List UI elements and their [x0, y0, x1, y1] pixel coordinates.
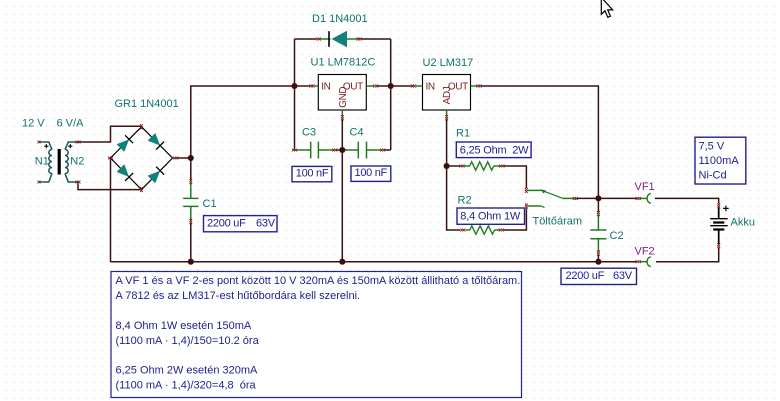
polarity plus N1 — [44, 144, 48, 148]
wire C2 bottom stub — [597, 255, 599, 262]
svg-text:100 nF: 100 nF — [355, 167, 388, 179]
switch SW1 arm head — [541, 189, 546, 193]
svg-text:N1: N1 — [35, 155, 49, 167]
svg-text:IN: IN — [321, 81, 330, 92]
svg-text:ADJ: ADJ — [442, 86, 453, 104]
svg-text:U1 LM7812C: U1 LM7812C — [311, 57, 376, 69]
wire switch pole to node — [577, 197, 599, 199]
op U2 LM317 box — [423, 75, 471, 111]
info box battery specs — [695, 137, 746, 184]
pin marker R1 left — [459, 165, 464, 168]
wire bridge right vertex to node — [178, 157, 191, 159]
diode D1 cathode bar — [328, 31, 330, 47]
pin marker N2 top — [76, 141, 81, 144]
svg-text:C4: C4 — [350, 127, 364, 139]
svg-text:63V: 63V — [256, 217, 276, 229]
wire left loop vertical (D1/C3) — [294, 39, 296, 150]
pin marker VF2 left — [636, 260, 641, 263]
U2 pin leads — [416, 86, 477, 116]
svg-text:100 nF: 100 nF — [296, 167, 329, 179]
bridge rectifier GR1 diamond — [111, 127, 173, 190]
svg-text:Ni-Cd: Ni-Cd — [699, 170, 727, 182]
svg-text:U2 LM317: U2 LM317 — [423, 57, 474, 69]
transformer TR1 winding N2 — [65, 142, 78, 150]
pin marker switch bottom throw — [525, 204, 528, 209]
wire bridge left vertex down to ground rail — [110, 158, 112, 262]
wire C1 bottom stub — [190, 223, 192, 262]
pin marker U1 in — [309, 85, 314, 88]
connector VF2 arc — [647, 257, 651, 267]
svg-text:VF1: VF1 — [635, 181, 655, 193]
bridge diode top-left — [117, 139, 130, 152]
pin marker U2 adj — [445, 115, 448, 120]
pin marker C3 left — [292, 149, 297, 152]
pin marker C2 top — [597, 211, 600, 216]
svg-text:IN: IN — [426, 81, 435, 92]
wire right loop vertical (D1/C4) — [390, 39, 392, 150]
value box C3 100nF — [292, 166, 332, 181]
pin marker C4 right — [380, 149, 385, 152]
pin marker R2 right — [499, 229, 504, 232]
wire C1 top stub — [190, 158, 192, 180]
battery B1 leads — [718, 208, 720, 245]
switch SW1 pole lead — [563, 197, 574, 199]
junction node rail C1 — [188, 259, 194, 265]
svg-text:Töltőáram: Töltőáram — [533, 215, 583, 227]
pin marker N2 bottom — [76, 181, 81, 184]
pin marker U2 out — [476, 85, 481, 88]
wire U2 out to right corner down — [481, 86, 598, 198]
pin marker switch pole — [573, 197, 578, 200]
svg-text:Akku: Akku — [731, 217, 755, 229]
pin marker C1 bottom — [189, 219, 192, 224]
pin marker U1 gnd — [341, 115, 344, 120]
mouse cursor — [601, 0, 612, 17]
diode D1 leads — [321, 38, 358, 40]
pin marker bridge top — [140, 124, 143, 129]
connector VF1 arc — [647, 194, 651, 204]
wire U1 out to U2 in — [378, 85, 412, 87]
value box R2 — [457, 208, 525, 224]
svg-text:VF2: VF2 — [635, 246, 655, 258]
svg-text:2200 uF: 2200 uF — [207, 217, 246, 229]
svg-text:63V: 63V — [613, 270, 633, 282]
switch SW1 bottom contact tick — [541, 206, 545, 208]
connector VF1 lead — [640, 197, 647, 199]
svg-text:6,25 Ohm 2W: 6,25 Ohm 2W — [460, 145, 529, 157]
junction node gnd C3C4 — [339, 147, 345, 153]
pin marker C1 top — [189, 179, 192, 184]
resistor R2 — [466, 229, 470, 231]
pin marker bridge bottom — [140, 187, 143, 192]
junction node switch pole — [595, 195, 601, 201]
wire C4 right corner up — [385, 149, 391, 151]
transformer TR1 winding N1 — [39, 142, 52, 150]
wire R1 left stub — [447, 165, 460, 167]
wire N2 bottom to bridge bottom vertex — [78, 182, 142, 190]
svg-text:C3: C3 — [302, 127, 316, 139]
svg-text:6 V/A: 6 V/A — [57, 118, 85, 130]
pin marker bridge left — [108, 157, 113, 160]
battery plus sign — [723, 206, 729, 212]
wire C2 top stub — [597, 198, 599, 211]
svg-text:2200 uF: 2200 uF — [566, 270, 605, 282]
pin marker D1 cathode — [356, 38, 361, 41]
svg-text:6,25 Ohm 2W esetén 320mA: 6,25 Ohm 2W esetén 320mA — [116, 365, 259, 377]
wire node to VF1 — [598, 197, 636, 199]
bridge diode bottom-right — [148, 171, 161, 184]
wire U2 adj down — [447, 120, 460, 231]
value box C1 2200uF — [204, 216, 278, 232]
junction node main-IN — [291, 83, 297, 89]
diode D1 triangle — [332, 31, 348, 47]
junction node main-OUT — [388, 83, 394, 89]
wire D1 top left — [295, 38, 317, 40]
note text block — [111, 272, 522, 398]
pin marker C3 right — [332, 149, 337, 152]
bridge diode top-right — [148, 133, 161, 146]
capacitor C4 — [342, 142, 381, 159]
pin marker U2 in — [411, 85, 416, 88]
wire R1 right to switch top — [504, 166, 527, 188]
svg-text:C2: C2 — [610, 230, 624, 242]
svg-text:R1: R1 — [456, 128, 470, 140]
junction node rail gnd — [339, 259, 345, 265]
wire R2 right to switch bottom — [503, 208, 526, 230]
junction node bridge output — [188, 155, 194, 161]
polarity plus N2 — [68, 144, 72, 148]
bridge right vertex green stub — [173, 157, 175, 159]
battery B1 plates — [710, 219, 728, 226]
junction node adj R1 — [444, 163, 450, 169]
transformer core — [58, 149, 61, 175]
svg-text:C1: C1 — [203, 198, 217, 210]
resistor R1 — [464, 165, 470, 167]
U1 pin leads — [315, 86, 374, 116]
switch SW1 arm — [542, 191, 563, 199]
capacitor C2 — [591, 216, 607, 253]
svg-text:GR1 1N4001: GR1 1N4001 — [115, 98, 179, 110]
pin marker D1 anode — [316, 38, 321, 41]
svg-text:12 V: 12 V — [22, 118, 45, 130]
pin marker R2 left — [460, 229, 465, 232]
switch SW1 bottom contact lead — [528, 205, 541, 207]
pin marker switch top throw — [525, 188, 528, 193]
svg-text:A 7812 és az LM317-est hűtőbor: A 7812 és az LM317-est hűtőbordára kell … — [116, 290, 361, 302]
junction node rail C2 — [595, 259, 601, 265]
svg-text:1100mA: 1100mA — [699, 155, 740, 167]
wire VF1 to battery top — [655, 198, 719, 203]
pin marker battery bottom — [717, 243, 720, 248]
wire U1 gnd down to rail — [341, 120, 343, 262]
pin marker U1 out — [373, 85, 378, 88]
wire battery bottom to VF2 right — [656, 248, 719, 262]
bridge diode bottom-left — [117, 164, 130, 177]
svg-text:8,4 Ohm 1W esetén 150mA: 8,4 Ohm 1W esetén 150mA — [116, 320, 252, 332]
capacitor C3 — [297, 142, 333, 159]
pin marker C2 bottom — [597, 251, 600, 256]
pin marker battery top — [717, 203, 720, 208]
wire riser node to main rail — [191, 86, 310, 158]
value box C4 100nF — [351, 166, 391, 181]
connector VF2 lead — [640, 261, 647, 263]
svg-text:N2: N2 — [70, 155, 84, 167]
pin marker N1 bottom — [37, 181, 40, 184]
switch SW1 top contact lead — [528, 189, 542, 191]
pin marker R1 right — [499, 165, 504, 168]
svg-text:(1100 mA · 1,4)/320=4,8 óra: (1100 mA · 1,4)/320=4,8 óra — [116, 379, 257, 391]
pin marker VF1 left — [636, 197, 641, 200]
wire D1 top right — [361, 38, 391, 40]
svg-text:A VF 1 és a VF 2-es pont közöt: A VF 1 és a VF 2-es pont között 10 V 320… — [116, 275, 521, 287]
pin marker N1 top — [37, 141, 40, 144]
value box R1 — [456, 142, 531, 158]
svg-text:8,4 Ohm 1W: 8,4 Ohm 1W — [460, 211, 521, 223]
svg-text:7,5 V: 7,5 V — [699, 140, 725, 152]
svg-text:GND: GND — [338, 87, 349, 108]
svg-text:R2: R2 — [458, 195, 472, 207]
value box C2 2200uF — [561, 268, 637, 284]
capacitor C1 — [183, 184, 198, 222]
svg-text:(1100 mA · 1,4)/150=10.2 óra: (1100 mA · 1,4)/150=10.2 óra — [116, 335, 260, 347]
wire C3 right stub — [337, 149, 343, 151]
pin marker bridge right — [173, 157, 178, 160]
ground rail bottom — [111, 261, 638, 263]
op U1 LM7812C box — [318, 75, 366, 111]
svg-text:D1 1N4001: D1 1N4001 — [312, 13, 368, 25]
wire N2 top to bridge top vertex — [78, 126, 142, 142]
